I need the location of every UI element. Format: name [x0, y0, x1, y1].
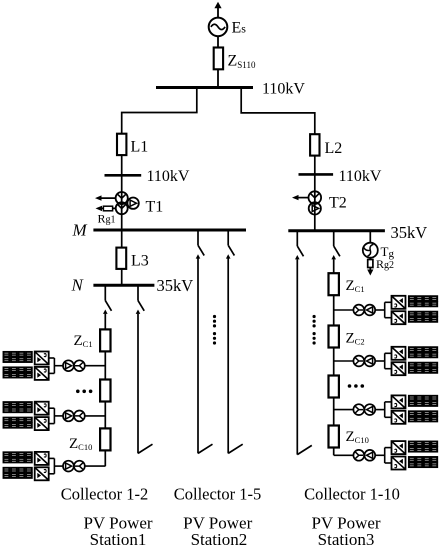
wire 110kV bus to T1	[121, 175, 123, 230]
reactor L3	[116, 248, 126, 269]
svg-text:Es: Es	[232, 20, 247, 37]
station2 feeder2 line	[227, 258, 229, 453]
chain wire to last group	[333, 448, 335, 456]
wire Es to ZS110	[217, 36, 219, 47]
bus 110kV top	[156, 86, 253, 89]
switch station2 feeder2	[226, 230, 235, 259]
svg-text:Station3: Station3	[318, 530, 375, 549]
impedance box3 right	[329, 376, 339, 398]
PV group 1 right	[334, 296, 438, 324]
impedance ZC10 right	[329, 426, 339, 448]
svg-text:Collector 1-10: Collector 1-10	[304, 485, 400, 504]
grounding transformer Tg	[363, 243, 378, 258]
PV group 3 left	[3, 452, 105, 480]
PV group 3 right	[334, 395, 438, 423]
PV group 2 right	[334, 347, 438, 375]
svg-text:L2: L2	[325, 140, 343, 157]
wire switch to chain	[104, 314, 106, 330]
chain wire	[333, 398, 335, 426]
transformer T1	[116, 192, 139, 214]
switch station2 feeder1	[196, 230, 205, 259]
svg-text:35kV: 35kV	[391, 223, 428, 242]
dots station2	[213, 315, 216, 345]
switch collector1 feeder2	[136, 285, 145, 314]
T1 neutral arrow lower with Rg1	[100, 207, 116, 209]
reactor L1	[117, 134, 126, 155]
switch station3 feeder1	[295, 231, 304, 260]
wire L3 to bus N	[121, 269, 123, 285]
wire bus to L2 branch	[241, 88, 315, 135]
wire L1 to 110kV bus left	[121, 155, 123, 175]
svg-text:L3: L3	[131, 253, 149, 270]
bus 110kV left	[105, 174, 142, 177]
chain wire	[333, 295, 335, 325]
station3 feeder1 line	[296, 259, 298, 454]
impedance box 2 left	[100, 380, 110, 402]
svg-text:Collector 1-5: Collector 1-5	[174, 485, 262, 504]
reactor L2	[310, 134, 319, 155]
svg-text:Station1: Station1	[90, 530, 147, 549]
chain wire	[333, 348, 335, 376]
svg-text:Station2: Station2	[191, 530, 248, 549]
svg-text:Rg2: Rg2	[376, 257, 394, 271]
svg-text:35kV: 35kV	[157, 276, 194, 295]
wire switch to chain	[333, 259, 335, 273]
bus N	[93, 284, 154, 287]
svg-text:N: N	[71, 276, 85, 295]
PV group 2 left	[3, 402, 105, 430]
resistor Rg1	[103, 206, 112, 211]
wire M to L3	[121, 230, 123, 248]
T1 neutral arrow upper	[100, 197, 116, 199]
AC source Es	[209, 18, 228, 37]
bus 110kV right	[299, 173, 334, 176]
chain wire	[104, 402, 106, 429]
feeder end stick	[228, 444, 243, 453]
T2 neutral arrow	[297, 197, 309, 199]
chain wire to last group	[104, 450, 106, 466]
source arrow up	[214, 2, 221, 8]
ground arrow down	[369, 268, 371, 272]
bus M	[93, 229, 246, 232]
svg-text:L1: L1	[131, 139, 149, 156]
svg-text:Rg1: Rg1	[98, 212, 116, 226]
dots left chain	[76, 390, 80, 394]
feeder end stick	[297, 445, 312, 454]
transformer T2	[309, 191, 322, 214]
switch collector1 feeder1	[103, 285, 112, 314]
wire arrow to Es	[217, 8, 219, 18]
dots right chain	[348, 384, 352, 388]
impedance ZC1 right	[329, 273, 339, 295]
svg-text:T1: T1	[146, 199, 164, 216]
wire ZS110 to bus	[217, 69, 219, 87]
svg-text:110kV: 110kV	[262, 81, 305, 98]
resistor Rg2	[369, 258, 371, 260]
svg-text:T2: T2	[329, 195, 347, 212]
feeder2 end stick	[138, 444, 153, 453]
impedance ZC1 left	[100, 329, 110, 351]
wire T2 down	[314, 174, 316, 230]
svg-text:M: M	[72, 220, 88, 239]
impedance ZS110	[214, 48, 223, 70]
impedance ZC10 left	[100, 428, 110, 450]
dots station3	[313, 315, 316, 345]
svg-text:Collector 1-2: Collector 1-2	[61, 485, 149, 504]
switch station3 feeder2	[331, 231, 340, 260]
wire to Tg	[369, 231, 371, 243]
chain wire	[104, 351, 106, 379]
wire L2 to 110kV bus right	[314, 156, 316, 175]
svg-text:110kV: 110kV	[147, 168, 190, 185]
wire bus to L1 branch	[122, 88, 197, 134]
bus 35kV right	[288, 229, 385, 232]
PV group 4 right	[334, 441, 438, 469]
feeder2 line	[137, 314, 139, 454]
PV group 1 left	[3, 352, 105, 380]
feeder end stick	[198, 444, 213, 453]
station2 feeder1 line	[197, 258, 199, 453]
svg-text:110kV: 110kV	[339, 168, 382, 185]
impedance ZC2 right	[329, 326, 339, 348]
